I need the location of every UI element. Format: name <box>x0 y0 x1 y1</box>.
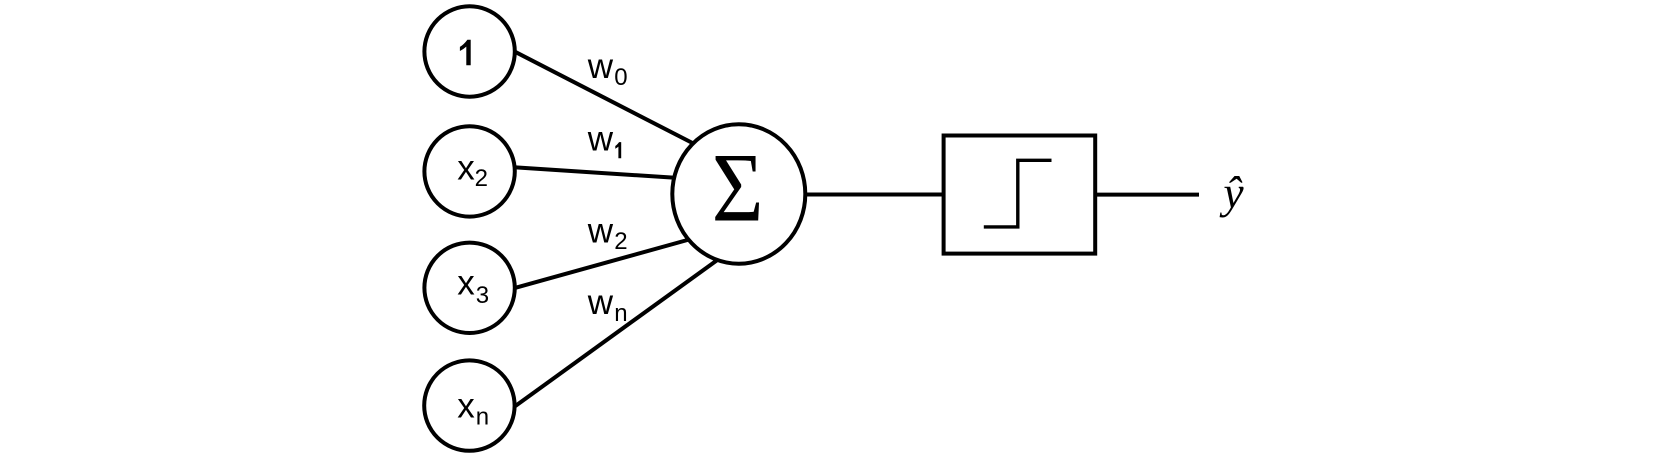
wire w1: x2 node to summation <box>510 167 700 179</box>
node circle: input xn <box>424 360 514 450</box>
wire wn: xn node to summation <box>510 260 717 410</box>
node circle: input x2 <box>424 126 514 216</box>
label: sigma summation symbol <box>712 133 764 242</box>
node circle: input x3 <box>424 243 514 333</box>
svg-text:Σ: Σ <box>712 133 764 242</box>
svg-text:w: w <box>587 283 614 322</box>
svg-text:2: 2 <box>475 165 488 192</box>
svg-text:3: 3 <box>476 282 489 309</box>
label: 1 in bias node <box>460 40 471 66</box>
node circle: bias input 1 <box>424 6 514 96</box>
svg-text:x: x <box>457 387 475 426</box>
wire w0: bias node to summation <box>510 49 700 147</box>
svg-text:n: n <box>614 300 627 327</box>
wire w2: x3 node to summation <box>510 237 700 290</box>
svg-text:ŷ: ŷ <box>1219 167 1244 218</box>
svg-text:w: w <box>587 120 614 159</box>
summation unit ellipse <box>672 124 805 263</box>
svg-text:w: w <box>587 212 614 251</box>
wire: activation box to output <box>1090 193 1199 197</box>
svg-text:2: 2 <box>614 228 627 255</box>
svg-text:n: n <box>476 404 489 431</box>
svg-text:x: x <box>457 264 475 303</box>
step function symbol inside box <box>984 160 1052 227</box>
svg-text:x: x <box>457 148 475 187</box>
svg-text:w: w <box>587 47 614 86</box>
svg-text:0: 0 <box>614 64 627 91</box>
activation function box <box>944 136 1096 254</box>
wire: summation to activation box <box>739 193 950 197</box>
